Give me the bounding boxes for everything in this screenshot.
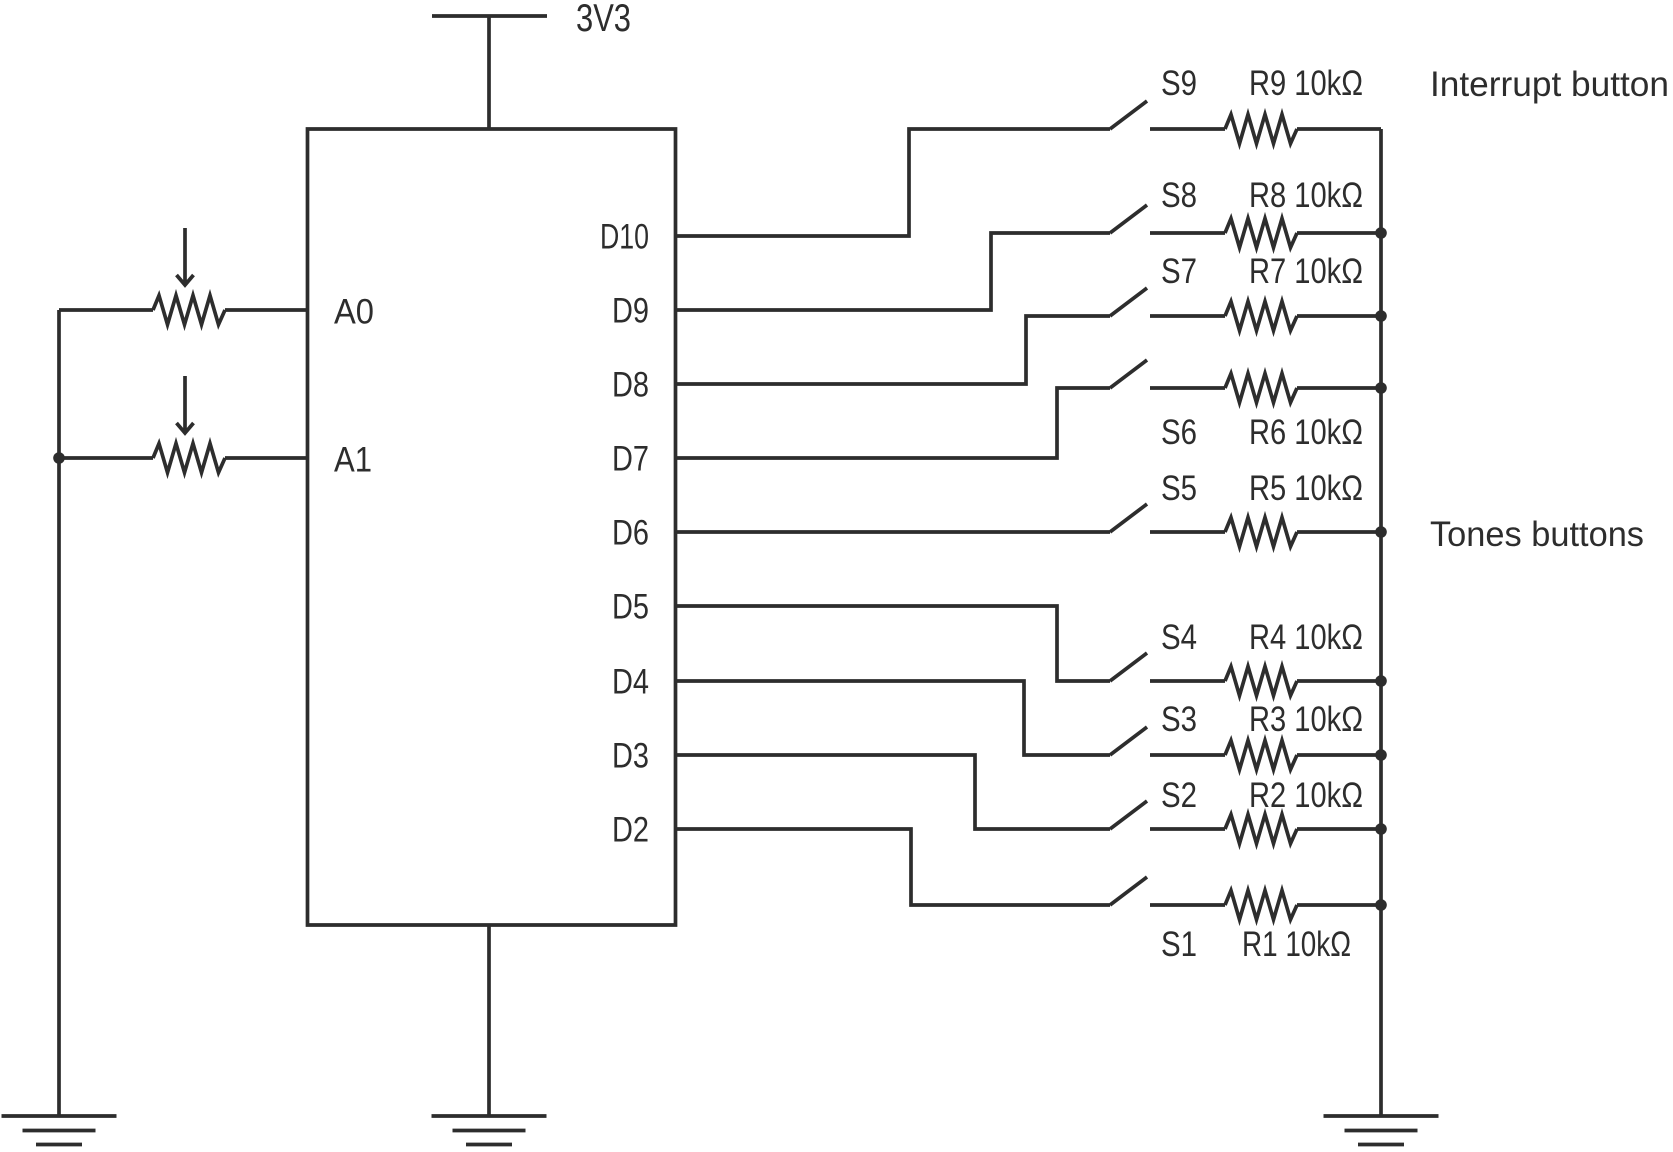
svg-text:R1 10kΩ: R1 10kΩ (1242, 925, 1351, 964)
svg-text:R5 10kΩ: R5 10kΩ (1249, 469, 1363, 508)
svg-text:D7: D7 (612, 440, 649, 479)
svg-text:Tones buttons: Tones buttons (1430, 515, 1644, 554)
svg-text:R4 10kΩ: R4 10kΩ (1249, 618, 1363, 657)
svg-text:A0: A0 (334, 293, 374, 332)
svg-text:S5: S5 (1161, 469, 1197, 508)
svg-text:D3: D3 (612, 737, 649, 776)
svg-text:R7 10kΩ: R7 10kΩ (1249, 252, 1363, 291)
svg-text:Interrupt button: Interrupt button (1430, 65, 1669, 104)
svg-text:S9: S9 (1161, 64, 1197, 103)
svg-text:D5: D5 (612, 588, 649, 627)
svg-text:D10: D10 (600, 218, 649, 257)
svg-text:S2: S2 (1161, 776, 1197, 815)
svg-text:R8 10kΩ: R8 10kΩ (1249, 176, 1363, 215)
svg-text:S4: S4 (1161, 618, 1197, 657)
svg-text:S3: S3 (1161, 700, 1197, 739)
svg-text:D4: D4 (612, 663, 649, 702)
svg-text:D9: D9 (612, 292, 649, 331)
svg-text:3V3: 3V3 (576, 0, 631, 40)
svg-text:R2 10kΩ: R2 10kΩ (1249, 776, 1363, 815)
svg-text:A1: A1 (334, 441, 372, 480)
svg-text:R6 10kΩ: R6 10kΩ (1249, 413, 1363, 452)
svg-text:R9 10kΩ: R9 10kΩ (1249, 64, 1363, 103)
svg-text:D2: D2 (612, 811, 649, 850)
svg-text:S7: S7 (1161, 252, 1197, 291)
svg-text:S8: S8 (1161, 176, 1197, 215)
svg-text:S6: S6 (1161, 413, 1197, 452)
svg-text:D8: D8 (612, 366, 649, 405)
svg-text:R3 10kΩ: R3 10kΩ (1249, 700, 1363, 739)
svg-text:D6: D6 (612, 514, 649, 553)
svg-text:S1: S1 (1161, 925, 1197, 964)
